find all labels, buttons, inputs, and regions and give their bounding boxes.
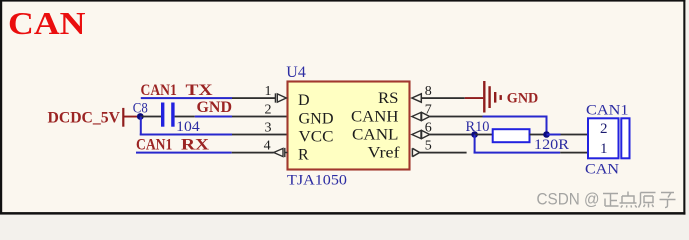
- capacitor C8 right plate: [171, 103, 174, 127]
- svg-text:Vref: Vref: [368, 145, 401, 162]
- svg-text:CAN1: CAN1: [136, 136, 172, 153]
- svg-text:CAN1: CAN1: [141, 82, 177, 99]
- junction node CANL left (navy dot): [471, 131, 478, 138]
- watermark hanzi 原: [639, 193, 656, 208]
- connector CAN1 side box: [621, 118, 629, 158]
- sheet border frame: [0, 0, 2, 214]
- pin 1 input arrow: [275, 93, 286, 102]
- svg-text:120R: 120R: [534, 137, 569, 153]
- svg-text:CANH: CANH: [351, 109, 399, 126]
- wire pin4 lead (black): [232, 152, 274, 154]
- pin 4 output arrow: [274, 148, 288, 157]
- svg-text:2: 2: [600, 121, 608, 137]
- wire pin1 lead (black): [232, 97, 276, 99]
- svg-text:4: 4: [264, 139, 271, 154]
- wire pin8 lead (black): [421, 97, 465, 99]
- wire net GND (blue): [195, 116, 232, 118]
- wire R10 right lead (black): [530, 134, 544, 136]
- svg-text:TJA1050: TJA1050: [287, 173, 347, 189]
- watermark hanzi 子: [660, 193, 676, 208]
- wire pin5 stub (black): [420, 152, 467, 154]
- svg-text:VCC: VCC: [299, 129, 334, 146]
- wire net CANH vertical drop (blue): [546, 116, 548, 135]
- wire net CAN1_RX (blue): [136, 152, 232, 154]
- svg-text:3: 3: [265, 121, 272, 136]
- svg-text:2: 2: [265, 103, 272, 118]
- svg-text:CAN1: CAN1: [586, 103, 629, 119]
- svg-text:5: 5: [425, 138, 432, 153]
- svg-text:R: R: [298, 147, 309, 164]
- pin 6 bidirectional arrow: [412, 130, 430, 138]
- wire net CAN1_TX (blue): [141, 97, 232, 99]
- wire net VCC row (blue): [140, 134, 232, 136]
- watermark hanzi 正: [603, 194, 619, 207]
- wire CANL vertical drop (blue): [474, 135, 476, 154]
- svg-text:C8: C8: [133, 100, 148, 116]
- op-amp U1 body : IC U4 TJA1050 body: [288, 82, 410, 170]
- power wire to GND symbol (dark red): [465, 97, 484, 99]
- capacitor C8 left plate: [161, 103, 164, 127]
- wire CANH to connector (blue then black): [547, 134, 561, 136]
- watermark hanzi 点: [620, 192, 637, 208]
- svg-text:CAN: CAN: [585, 161, 620, 177]
- svg-text:D: D: [298, 92, 310, 109]
- svg-text:1: 1: [600, 141, 608, 157]
- svg-text:TX: TX: [186, 82, 214, 99]
- power ground symbol (sideways bars): [483, 81, 485, 113]
- svg-text:104: 104: [176, 119, 200, 135]
- pin 5 output arrow: [412, 148, 419, 156]
- wire 5V to C8 left plate (black): [140, 116, 161, 118]
- wire pin7 lead (black): [430, 116, 483, 118]
- svg-text:RX: RX: [181, 136, 210, 153]
- svg-text:1: 1: [265, 84, 272, 99]
- resistor R10 body: [493, 129, 530, 142]
- svg-text:R10: R10: [466, 119, 490, 135]
- power port DCDC_5V bar: [122, 108, 124, 127]
- svg-text:8: 8: [425, 84, 432, 99]
- wire C8 right plate to GND net (black): [175, 116, 195, 118]
- wire CANL to R10 left lead (black): [475, 134, 493, 136]
- wire pin6 lead (black): [430, 134, 475, 136]
- svg-text:GND: GND: [507, 91, 539, 107]
- svg-text:CSDN @: CSDN @: [537, 190, 600, 208]
- power wire DCDC_5V (dark red): [123, 116, 141, 118]
- svg-text:U4: U4: [286, 64, 306, 81]
- connector CAN1 main box: [588, 118, 619, 158]
- svg-text:CAN: CAN: [8, 6, 86, 41]
- junction node 5V (navy dot): [137, 113, 144, 120]
- wire net CANH horizontal (blue): [483, 116, 548, 118]
- junction node CANH right (navy dot): [543, 131, 550, 138]
- wire 5V vertical drop to VCC row (blue): [140, 117, 142, 136]
- svg-text:CANL: CANL: [352, 127, 399, 144]
- wire pin3 lead (black): [232, 134, 287, 136]
- pin 7 bidirectional arrow: [412, 112, 430, 120]
- wire pin2 lead (black): [232, 116, 287, 118]
- wire CANL horizontal to connector (blue then black): [474, 152, 561, 154]
- svg-text:DCDC_5V: DCDC_5V: [48, 109, 121, 126]
- svg-text:GND: GND: [299, 111, 334, 128]
- svg-text:GND: GND: [197, 99, 233, 116]
- pin 8 input arrow: [412, 94, 421, 102]
- svg-text:RS: RS: [378, 90, 399, 107]
